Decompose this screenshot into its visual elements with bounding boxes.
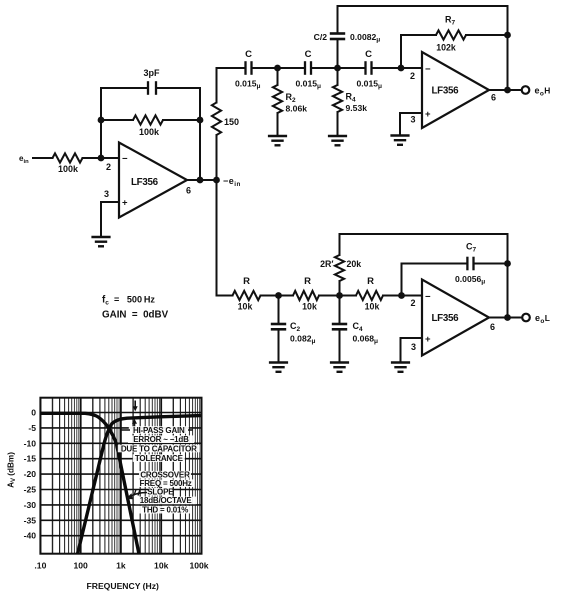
wire top rail low-pass [340,234,508,318]
capacitor 3pF plates [148,81,156,95]
capacitor C4 branch [332,296,347,363]
label C first [245,49,252,60]
svg-text:6: 6 [186,186,191,196]
svg-text:-10: -10 [24,438,37,448]
svg-text:C: C [245,49,252,60]
svg-text:.10: .10 [34,561,46,571]
wire C1 to node [253,67,305,69]
ground at C2 low [269,363,288,372]
svg-text:1k: 1k [116,561,126,571]
label 8.06k [286,104,308,114]
svg-text:HI-PASS GAIN: HI-PASS GAIN [133,426,185,435]
ground at R2 [268,136,287,145]
wire left feedback top [101,87,147,89]
svg-text:+: + [425,109,431,120]
wire R3L to U3 pin2 [383,295,422,297]
node C7/top-rail junction [504,260,511,267]
op-amp U1 LF356 triangle [119,143,187,218]
capacitor C/2 branch [330,6,345,68]
resistor R7 body [436,30,466,39]
svg-text:R: R [243,276,250,287]
wire -e_in down to low-pass [217,180,233,296]
wire U2 output [489,89,522,91]
svg-text:R: R [304,276,311,287]
svg-text:−: − [122,154,128,165]
label 100k for R_f [139,127,160,137]
wire R2L to node [319,295,356,297]
svg-text:LF356: LF356 [131,177,159,188]
label R7 [445,15,456,27]
node -e_in [213,177,220,184]
label 10k first [238,302,253,312]
op-amp U2 LF356 triangle [422,52,489,128]
svg-text:100k: 100k [58,164,79,174]
wire C3 to U2 pin2 [373,67,422,69]
resistor 2R' 20k branch [335,234,344,296]
annotation ERROR -1dB [128,435,194,444]
svg-text:ERROR ~ −1dB: ERROR ~ −1dB [133,435,189,444]
pin 6 label U2 [491,93,496,103]
chart y-axis title Av (dBm) [7,452,18,488]
ground at U1 pin3 [91,237,110,246]
ground at U3 pin3 [391,363,410,372]
node U2 inverting input [398,65,405,72]
label 0.015u first [235,79,261,91]
svg-text:2: 2 [411,298,416,308]
label C/2 [314,32,328,42]
svg-text:LF356: LF356 [432,86,460,97]
svg-text:150: 150 [224,117,239,127]
svg-text:AV (dBm): AV (dBm) [7,452,18,488]
arrow up to hi-pass curve [132,419,137,427]
svg-text:2R′: 2R′ [320,259,333,269]
wire U3 output [489,317,522,319]
resistor R second low body [293,291,319,300]
node mid low-pass [336,292,343,299]
pin 6 label U1 [186,186,191,196]
svg-text:100: 100 [74,561,89,571]
node U2 output [504,87,511,94]
node R7/top-rail junction [504,32,511,39]
svg-text:THD = 0.01%: THD = 0.01% [142,506,188,515]
svg-text:18dB/OCTAVE: 18dB/OCTAVE [140,496,193,505]
svg-text:10k: 10k [302,302,317,312]
label e_oH [535,86,551,98]
label plus U1 [122,198,128,209]
label 102k [436,43,456,53]
op-amp U3 LF356 triangle [422,280,489,356]
capacitor C third plates [366,61,372,75]
svg-text:2: 2 [106,162,111,172]
label C4 [353,321,364,333]
label R third low [367,276,374,287]
label LF356 U1 [131,177,159,188]
chart horizontal gridlines 0..-40dB [40,413,201,536]
node after first C [274,65,281,72]
svg-text:3: 3 [411,342,416,352]
svg-text:0.0082μ: 0.0082μ [350,32,380,44]
svg-text:C: C [365,49,372,60]
wire top rail high-pass [338,6,508,90]
label C second [305,49,312,60]
label R2 [286,92,297,104]
annotation FREQ 500Hz [137,479,195,488]
svg-text:10k: 10k [238,302,253,312]
capacitor C7 plates [467,257,473,271]
label C third [365,49,372,60]
pin 3 label U1 [104,189,109,199]
chart x-axis tick labels [34,561,208,571]
label -e_in [223,176,241,188]
svg-text:FREQUENCY (Hz): FREQUENCY (Hz) [86,581,159,591]
terminal e_oL circle [522,314,530,322]
arrow slope leader [126,490,147,500]
wire U2 pin3 stub [400,113,422,136]
svg-text:10k: 10k [365,302,380,312]
label fc = 500Hz [102,295,155,307]
resistor R2 body [273,68,282,136]
label C7 [466,242,477,254]
label 3pF [143,68,160,78]
wire R_in to op-amp U1 pin2 [83,157,120,159]
ground at U2 pin3 [390,136,409,145]
svg-text:-25: -25 [24,485,37,495]
chart decade gridlines [40,398,201,554]
leader dashes HI-PASS GAIN [122,429,193,431]
svg-text:+: + [425,334,431,345]
chart minor log gridlines [53,398,200,554]
svg-text:6: 6 [490,322,495,332]
svg-text:6: 6 [491,93,496,103]
svg-text:-20: -20 [24,469,37,479]
svg-text:-40: -40 [24,531,37,541]
node mid high-pass [334,65,341,72]
node U3 inverting input [398,292,405,299]
label 20k [347,259,362,269]
annotation DUE TO CAPACITOR [118,444,200,453]
annotation THD 0.01% [139,506,191,515]
label 9.53k [346,103,368,113]
node feedback right junction [197,117,204,124]
svg-text:0: 0 [31,408,36,418]
label 10k third [365,302,380,312]
label minus U1 [122,154,128,165]
svg-text:10k: 10k [154,561,169,571]
svg-text:R: R [367,276,374,287]
label minus U2 [425,64,431,75]
node U1 output/feedback [197,177,204,184]
pin 3 label U2 [411,115,416,125]
svg-text:C: C [305,49,312,60]
capacitor C second plates [305,61,311,75]
wire R_f to right vertical [163,119,200,121]
svg-text:100k: 100k [189,561,208,571]
svg-text:−: − [425,292,431,303]
pin 2 label U3 [411,298,416,308]
pin 2 label U1 [106,162,111,172]
label 0.068u [353,334,379,346]
wire junction up to feedback [100,88,102,158]
label 0.015u third [357,79,383,91]
label 10k second [302,302,317,312]
svg-text:−: − [425,64,431,75]
capacitor C first plates [246,61,252,75]
svg-text:TOLERANCE: TOLERANCE [135,454,184,463]
label 0.0082u [350,32,380,44]
resistor R third low body [356,291,383,300]
svg-text:-5: -5 [28,423,36,433]
pin 3 label U3 [411,342,416,352]
resistor R_in 100k body [53,153,83,162]
wire R7 to output vertical [466,34,508,36]
label GAIN = 0dBV [102,310,169,321]
annotation SLOPE [147,488,174,497]
svg-text:0.0056μ: 0.0056μ [455,274,485,286]
label plus U3 [425,334,431,345]
wire left feedback mid [101,119,133,121]
svg-text:8.06k: 8.06k [286,104,308,114]
arrow down to 0dB line [133,401,138,412]
ground at R4 [328,136,347,145]
terminal e_oH circle [522,86,530,94]
resistor R4 body [333,68,342,136]
svg-text:DUE TO CAPACITOR: DUE TO CAPACITOR [121,444,197,453]
wire input to R_in [33,157,53,159]
annotation HI-PASS GAIN [129,426,189,435]
label plus U2 [425,109,431,120]
label R first low [243,276,250,287]
label LF356 U3 [432,313,460,324]
label 2R' [320,259,333,269]
label e_oL [535,313,550,325]
label 0.015u second [296,79,322,91]
wire -e_in up to 150 [216,135,218,180]
capacitor C2 low branch [271,296,286,363]
svg-text:-30: -30 [24,500,37,510]
svg-text:20k: 20k [347,259,362,269]
svg-text:-35: -35 [24,515,37,525]
label minus U3 [425,292,431,303]
wire 3pF to right vertical [157,87,200,89]
svg-text:+: + [122,198,128,209]
annotation TOLERANCE [133,454,185,463]
pin 2 label U2 [410,71,415,81]
wire U1 pin3 stub [101,202,119,237]
wire right feedback vertical [199,88,201,180]
svg-text:C/2: C/2 [314,32,328,42]
wire C7 to output vertical [475,263,508,265]
node after R1L [275,292,282,299]
node junction input/feedback [98,155,105,162]
annotation 18dB/OCTAVE [135,496,196,505]
svg-text:2: 2 [410,71,415,81]
svg-text:9.53k: 9.53k [346,103,368,113]
wire U3 pin3 stub [401,338,423,363]
annotation CROSSOVER [139,471,191,480]
svg-text:3: 3 [104,189,109,199]
chart y-axis tick labels [24,408,37,541]
label 100k for R_in [58,164,79,174]
node U3 output [504,314,511,321]
label R4 [346,92,357,104]
label C2 low [290,321,301,333]
svg-text:LF356: LF356 [432,313,460,324]
label 0.082u [290,334,316,346]
svg-text:GAIN = 0dBV: GAIN = 0dBV [102,310,169,321]
resistor R first low body [233,291,261,300]
wire C2 to node [312,67,365,69]
svg-text:-15: -15 [24,454,37,464]
wire R1L to node [261,295,294,297]
chart border [40,398,201,554]
node e_in input terminal [19,154,29,165]
svg-text:102k: 102k [436,43,456,53]
svg-text:100k: 100k [139,127,160,137]
ground at C4 [330,363,349,372]
wire U1 output [187,179,217,181]
wire C7 branch [402,264,467,296]
label 0.0056u [455,274,485,286]
wire 150 to corner and right [217,68,245,103]
pin 6 label U3 [490,322,495,332]
label R second low [304,276,311,287]
curve high-pass response [78,416,201,554]
curve low-pass response [40,413,139,554]
node feedback left junction [98,117,105,124]
label 150 [224,117,239,127]
label LF356 U2 [432,86,460,97]
chart x-axis title FREQUENCY (Hz) [86,581,159,591]
svg-text:3: 3 [411,115,416,125]
resistor R_f 100k body [133,115,163,124]
resistor 150 body [212,103,221,136]
wire R7 branch up [401,35,436,68]
svg-text:3pF: 3pF [143,68,160,78]
